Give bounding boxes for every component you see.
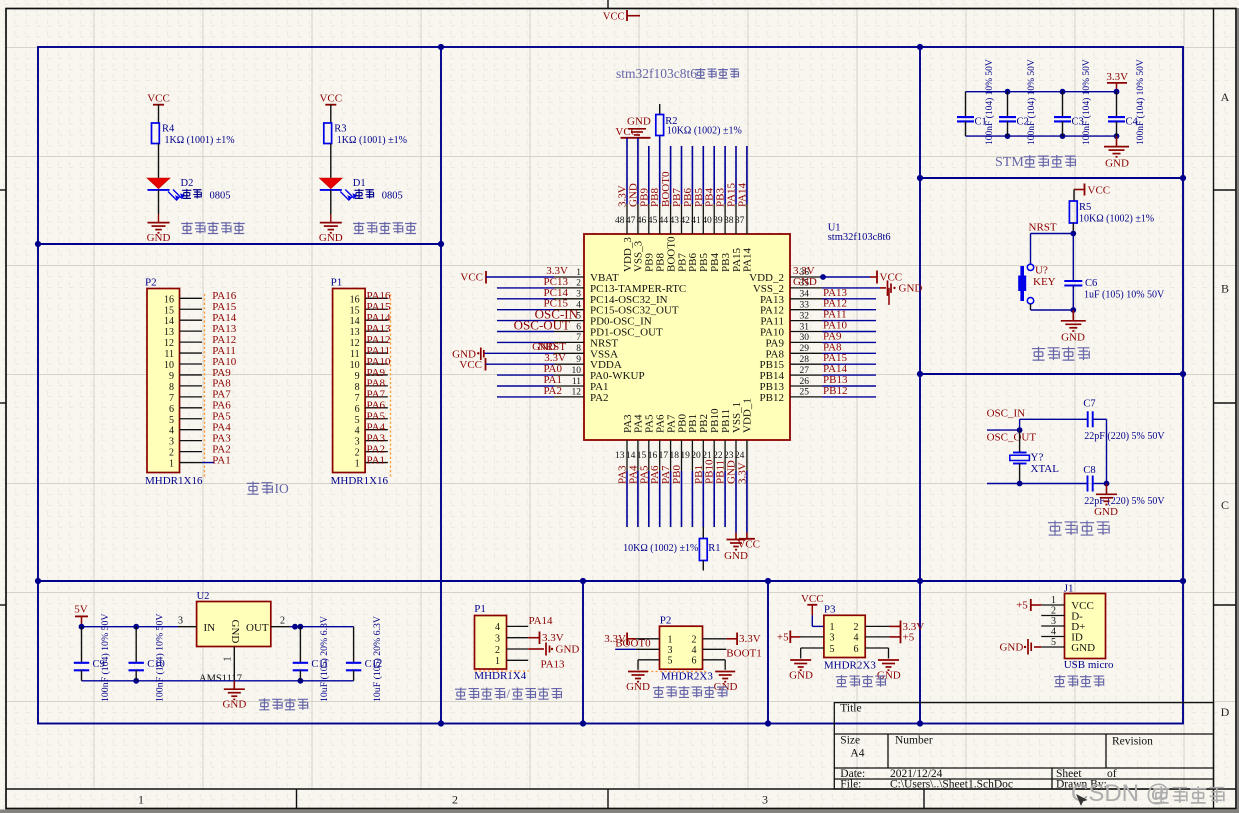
svg-text:GND: GND [789, 669, 813, 681]
svg-text:GND: GND [793, 276, 817, 288]
wire mcu pin32 [822, 320, 876, 322]
net label PC15 [544, 298, 569, 310]
svg-text:D1: D1 [353, 178, 366, 189]
capacitor C11 [293, 627, 329, 681]
svg-text:P1: P1 [474, 603, 486, 615]
wire decoupling top rail [966, 91, 1117, 93]
svg-text:14: 14 [164, 316, 174, 327]
svg-text:IN: IN [204, 622, 216, 634]
net label PC13 [544, 276, 569, 288]
wire crystal bottom rail [987, 481, 1109, 487]
ground on P2 pin5 [626, 672, 650, 693]
svg-text:3: 3 [830, 633, 835, 644]
caption programming debug interface [455, 686, 562, 701]
svg-text:PA2: PA2 [543, 385, 562, 397]
svg-text:1uF (105) 10% 50V: 1uF (105) 10% 50V [1084, 290, 1165, 301]
net label PA8 [823, 341, 842, 353]
svg-text:5: 5 [668, 656, 673, 667]
svg-text:23: 23 [724, 451, 734, 461]
mcu pin numbers [572, 216, 810, 461]
svg-text:18: 18 [670, 451, 680, 461]
svg-text:5: 5 [830, 644, 835, 655]
svg-text:3: 3 [169, 437, 174, 448]
svg-text:+5: +5 [1016, 600, 1028, 612]
net label PA14 [529, 615, 554, 627]
svg-text:24: 24 [735, 451, 745, 461]
svg-text:9: 9 [169, 371, 174, 382]
svg-text:44: 44 [659, 216, 669, 226]
svg-text:GND: GND [222, 699, 246, 711]
svg-text:100nF (104) 10% 50V: 100nF (104) 10% 50V [1135, 59, 1146, 145]
power port VCC reset [1074, 184, 1110, 197]
power port +5 on J1 pin1 [1016, 599, 1041, 612]
wire R5 to NRST node [1070, 223, 1076, 236]
value 10K of R5 [1079, 214, 1154, 225]
svg-text:7: 7 [576, 333, 581, 343]
svg-text:VCC: VCC [147, 93, 170, 105]
capacitor C1 [957, 92, 987, 136]
capacitor C12 [346, 627, 382, 681]
svg-text:10uF (105) 20% 6.3V: 10uF (105) 20% 6.3V [319, 616, 330, 702]
svg-text:R4: R4 [162, 124, 175, 135]
sheet title stm32f103c8t6 minimal system [616, 66, 739, 81]
power port VCC at mcu pin1 [460, 271, 486, 284]
svg-text:30: 30 [800, 333, 810, 343]
svg-text:OSC_OUT: OSC_OUT [987, 431, 1037, 443]
svg-text:10: 10 [572, 366, 582, 376]
wire mcu pin36 to VCC [820, 274, 877, 280]
caption STM decoupling circuit [995, 155, 1076, 170]
svg-text:15: 15 [164, 305, 174, 316]
svg-text:PA14: PA14 [742, 247, 754, 272]
resistor R4 [152, 123, 176, 144]
svg-text:9: 9 [576, 355, 581, 365]
net label PB13 [823, 374, 848, 386]
net label PA15 [823, 352, 848, 364]
svg-text:VCC: VCC [603, 12, 625, 23]
wires below mcu bottom pins [627, 471, 747, 533]
svg-text:GND: GND [532, 341, 556, 353]
junctions on decoupling rails [1005, 89, 1120, 139]
svg-text:Title: Title [840, 703, 861, 715]
svg-text:2: 2 [576, 279, 581, 289]
net label PA9 [823, 330, 842, 342]
power port VCC right of mcu [877, 271, 902, 284]
mcu pin names inside [590, 236, 784, 433]
svg-text:Size: Size [840, 735, 860, 747]
net label PA14 [823, 363, 848, 375]
power ports GND VCC above mcu [615, 116, 651, 138]
svg-text:C8: C8 [1083, 465, 1095, 476]
svg-text:10KΩ (1002) ±1%: 10KΩ (1002) ±1% [667, 126, 742, 137]
svg-text:28: 28 [800, 355, 810, 365]
svg-text:4: 4 [495, 622, 500, 633]
power port GND on P1 pin2 [528, 643, 579, 656]
connector P3 MHDR2X3 [824, 604, 876, 672]
svg-text:A: A [1221, 90, 1230, 104]
svg-text:11: 11 [350, 349, 360, 360]
power port 3.3V on P1 pin3 [528, 632, 564, 645]
pins of P1 [365, 298, 388, 462]
svg-text:38: 38 [724, 216, 734, 226]
svg-text:KEY: KEY [1033, 276, 1056, 288]
wire VCC to resistor [158, 105, 160, 123]
net labels on bottom wires [617, 459, 749, 484]
svg-text:1: 1 [495, 656, 500, 667]
svg-text:R1: R1 [708, 543, 720, 554]
svg-text:4: 4 [355, 426, 360, 437]
svg-text:3.3V: 3.3V [739, 633, 761, 645]
svg-text:VCC: VCC [737, 539, 760, 551]
connector J1 USB micro [1064, 583, 1114, 672]
ground of decoupling block [1104, 136, 1129, 169]
svg-text:42: 42 [680, 216, 690, 226]
svg-text:11: 11 [572, 377, 581, 387]
wire mcu pin7 NRST [497, 341, 554, 343]
svg-text:XTAL: XTAL [1031, 463, 1060, 475]
svg-text:+5: +5 [903, 632, 915, 644]
wire mcu pin25 [822, 396, 876, 398]
wire mcu pin27 [822, 374, 876, 376]
svg-text:AMS1117: AMS1117 [199, 674, 242, 685]
power port GND right of mcu [888, 280, 923, 305]
power port VCC at mcu pin9 [459, 358, 485, 371]
wire mcu pin30 [822, 341, 876, 343]
net label OSC_IN crystal [987, 408, 1026, 420]
svg-text:19: 19 [680, 451, 690, 461]
svg-text:P2: P2 [145, 277, 157, 289]
value 1K of R3 [337, 135, 407, 146]
svg-text:PA1: PA1 [212, 454, 231, 466]
svg-text:1KΩ (1001) ±1%: 1KΩ (1001) ±1% [165, 135, 235, 146]
net labels PA16-PA1 of P2 [212, 290, 237, 466]
power port VCC for D2 [147, 93, 170, 105]
power port +5 on P3 pin4 [889, 632, 914, 644]
wire crystal to bottom rail [1019, 464, 1021, 484]
connector P2 MHDR2X3 [660, 614, 714, 682]
net label PA13 [541, 659, 566, 671]
svg-text:3.3V: 3.3V [736, 462, 748, 484]
net label BOOT0 [615, 638, 651, 650]
power port +5 on P3 pin3 [777, 631, 800, 644]
ground of crystal block [1094, 484, 1118, 519]
capacitor C10 [129, 627, 165, 681]
svg-text:10: 10 [164, 360, 174, 371]
wire mcu pin6 OSC-OUT [497, 331, 554, 333]
resistor R1 [699, 527, 720, 571]
svg-text:3: 3 [668, 645, 673, 656]
net label OSC-IN [535, 307, 579, 322]
LED D2 [148, 178, 194, 201]
svg-text:GND: GND [1105, 158, 1129, 170]
svg-text:3.3V: 3.3V [1106, 71, 1128, 83]
caption external IO [247, 481, 289, 496]
svg-text:GND: GND [724, 550, 748, 562]
svg-text:9: 9 [355, 371, 360, 382]
svg-text:BOOT0: BOOT0 [615, 638, 651, 650]
push button U? KEY [1018, 264, 1055, 304]
svg-text:GND: GND [319, 232, 343, 244]
value label red LED 0805 [182, 189, 230, 201]
wire mcu pin11 [497, 385, 554, 387]
svg-text:34: 34 [800, 290, 810, 300]
svg-text:16: 16 [648, 451, 658, 461]
svg-text:13: 13 [164, 327, 174, 338]
power port 3.3V decoupling [1106, 71, 1128, 92]
wire mcu pin28 [822, 363, 876, 365]
svg-text:P3: P3 [824, 604, 836, 616]
svg-text:of: of [1107, 768, 1117, 780]
svg-text:11: 11 [164, 349, 174, 360]
net label PA0 [543, 363, 562, 375]
svg-text:3: 3 [576, 290, 581, 300]
svg-text:29: 29 [800, 344, 810, 354]
capacitor C3 [1054, 92, 1084, 136]
wires above mcu top pins [627, 136, 747, 205]
net label PA11 [823, 309, 847, 321]
svg-text:GND: GND [1071, 642, 1095, 654]
net label OSC_OUT crystal [987, 431, 1037, 443]
ground below mcu pin23 [724, 533, 748, 563]
ground below D1 [319, 223, 343, 244]
svg-text:3: 3 [355, 437, 360, 448]
resistor R3 [324, 123, 347, 144]
mcu U1 stm32f103c8t6 body [584, 234, 790, 440]
ground of reset block [1061, 310, 1086, 344]
net label PA2 [543, 385, 562, 397]
svg-text:Revision: Revision [1112, 736, 1153, 748]
capacitor C7 [1083, 399, 1095, 428]
value 100nF of C1 [984, 59, 995, 145]
value 100nF of C2 [1026, 59, 1037, 145]
net labels on top wires [617, 171, 749, 207]
svg-text:1: 1 [355, 459, 360, 470]
svg-text:MHDR2X3: MHDR2X3 [824, 659, 876, 671]
svg-text:10uF (105) 20% 6.3V: 10uF (105) 20% 6.3V [372, 616, 383, 702]
no-connect markers of P1 [390, 294, 392, 478]
power port GND at mcu pin8 [452, 348, 484, 361]
wire regulator bottom rail [82, 678, 354, 684]
value 10K of R1 [623, 543, 698, 554]
svg-text:R3: R3 [334, 124, 346, 135]
pins of P3 right [865, 626, 889, 658]
svg-text:PA1: PA1 [367, 454, 386, 466]
svg-text:6: 6 [169, 404, 174, 415]
net label PA13 [823, 287, 848, 299]
wire mcu pin35 to GND [822, 287, 886, 289]
svg-text:43: 43 [670, 216, 680, 226]
svg-text:1: 1 [576, 268, 581, 278]
connector P1 MHDR1X4 [474, 603, 526, 682]
svg-text:MHDR1X4: MHDR1X4 [474, 670, 526, 682]
value 100nF of C3 [1081, 59, 1092, 145]
svg-text:8: 8 [576, 344, 581, 354]
power port 3.3V on P2 pin2 [726, 633, 760, 646]
svg-text:5V: 5V [74, 604, 88, 616]
net label PA10 [823, 320, 848, 332]
svg-text:2: 2 [355, 448, 360, 459]
wire mcu pin33 [822, 309, 876, 311]
power port VCC on P3 [801, 593, 824, 615]
ground below D2 [147, 223, 171, 244]
svg-text:1KΩ (1001) ±1%: 1KΩ (1001) ±1% [337, 135, 407, 146]
resistor R5 [1069, 190, 1091, 224]
svg-text:10KΩ (1002) ±1%: 10KΩ (1002) ±1% [623, 543, 698, 554]
net label OSC-OUT [514, 318, 570, 333]
capacitor C2 [999, 92, 1029, 136]
svg-text:31: 31 [800, 322, 810, 332]
wire OSC_IN to C7 [1017, 419, 1088, 433]
resistor R2 [656, 104, 678, 136]
net label 3.3V pin1 [546, 265, 568, 277]
svg-text:14: 14 [350, 316, 360, 327]
wire BOOT0 on P2 pin3 [615, 648, 636, 650]
svg-text:STM: STM [995, 155, 1024, 170]
svg-text:17: 17 [659, 451, 669, 461]
wire mcu pin2 [497, 287, 554, 289]
svg-text:21: 21 [702, 451, 712, 461]
svg-text:1: 1 [223, 657, 234, 662]
wire mcu pin9 [486, 363, 555, 365]
wire mcu pin34 [822, 298, 876, 300]
svg-text:6: 6 [576, 322, 581, 332]
pins of P2 right [703, 639, 727, 670]
svg-text:3.3V: 3.3V [542, 632, 564, 644]
svg-text:1: 1 [1051, 595, 1056, 606]
net label NRST overlapped [532, 341, 566, 353]
svg-text:P1: P1 [331, 277, 343, 289]
power port VCC top [603, 10, 640, 23]
svg-text:MHDR1X16: MHDR1X16 [145, 475, 203, 487]
svg-text:8: 8 [169, 382, 174, 393]
svg-text:2: 2 [280, 616, 285, 627]
svg-text:PB12: PB12 [823, 385, 847, 397]
svg-text:VCC: VCC [460, 272, 483, 284]
svg-text:PA13: PA13 [541, 659, 566, 671]
zone letters and numbers [138, 90, 1230, 807]
wire mcu pin5 OSC-IN [497, 320, 554, 322]
svg-text:5: 5 [169, 415, 174, 426]
svg-text:File:: File: [840, 779, 861, 791]
svg-text:7: 7 [355, 393, 360, 404]
value 22pF of C8 [1084, 496, 1165, 507]
svg-text:U?: U? [1035, 265, 1048, 277]
svg-text:B: B [1221, 282, 1229, 296]
wire mcu pin4 [497, 309, 554, 311]
wire resistor to LED [158, 144, 160, 179]
value 100nF of C4 [1135, 59, 1146, 145]
capacitor C9 [74, 627, 105, 681]
pins of J1 [1041, 595, 1064, 648]
value of C9 [100, 614, 111, 702]
value 1uF of C6 [1084, 290, 1165, 301]
svg-text:3: 3 [1051, 616, 1056, 627]
svg-text:+5: +5 [777, 631, 789, 643]
svg-text:13: 13 [615, 451, 625, 461]
svg-text:20: 20 [691, 451, 701, 461]
net label PA12 [823, 298, 847, 310]
net label 3.3V pin9 [544, 352, 566, 364]
svg-text:R5: R5 [1079, 202, 1091, 213]
svg-text:PB12: PB12 [760, 392, 784, 404]
svg-text:0805: 0805 [382, 190, 403, 201]
wire mcu pin8 [485, 352, 555, 354]
svg-text:12: 12 [572, 388, 582, 398]
caption crystal circuit [1048, 521, 1109, 535]
power port VCC for D1 [319, 93, 342, 105]
net label PB12 [823, 385, 847, 397]
svg-text:GND: GND [229, 620, 241, 644]
svg-text:100nF (104) 10% 50V: 100nF (104) 10% 50V [1081, 59, 1092, 145]
divider junction dots [35, 44, 1186, 727]
svg-text:PA14: PA14 [529, 615, 554, 627]
svg-text:22: 22 [713, 451, 723, 461]
svg-text:13: 13 [350, 327, 360, 338]
value 22pF of C7 [1084, 431, 1165, 442]
svg-text:IO: IO [275, 481, 289, 496]
pins of P1 [507, 626, 529, 660]
wire C7 to corner down [1093, 419, 1107, 483]
svg-text:100nF (104) 10% 50V: 100nF (104) 10% 50V [100, 614, 111, 702]
power port 3.3V on P3 pin2 [889, 621, 924, 634]
capacitor C4 [1108, 92, 1139, 136]
svg-text:GND: GND [626, 681, 650, 693]
svg-text:2: 2 [452, 793, 458, 807]
wire decoupling bottom rail [966, 135, 1117, 137]
svg-text:5: 5 [355, 415, 360, 426]
svg-text:3: 3 [178, 616, 183, 627]
svg-text:100nF (104) 10% 50V: 100nF (104) 10% 50V [1026, 59, 1037, 145]
svg-text:100nF (104) 10% 50V: 100nF (104) 10% 50V [155, 614, 166, 702]
no-connect marker P1 [475, 670, 530, 672]
power port GND on J1 pin5 [999, 639, 1041, 655]
power port 5V [74, 604, 88, 627]
wire LED to ground [158, 190, 160, 223]
power port VCC below mcu pin24 [737, 533, 760, 551]
wire VCC to P3 pin1 [812, 615, 824, 626]
LED D1 [320, 178, 366, 201]
connector P1 MHDR1X16 [331, 277, 389, 488]
svg-text:Number: Number [895, 735, 933, 747]
svg-text:A4: A4 [850, 748, 864, 760]
value label red LED 0805 [354, 189, 402, 201]
svg-text:46: 46 [637, 216, 647, 226]
mcu pin stubs [554, 204, 822, 471]
svg-text:GND: GND [1061, 332, 1085, 344]
svg-text:47: 47 [626, 216, 636, 226]
svg-text:D: D [1221, 705, 1230, 719]
svg-text:33: 33 [800, 301, 810, 311]
net label NRST [1029, 222, 1057, 234]
svg-text:14: 14 [626, 451, 636, 461]
svg-text:2: 2 [692, 635, 697, 646]
value of C12 [372, 616, 383, 702]
ground on P3 pin6 [877, 660, 901, 681]
wire LED to ground [330, 190, 332, 223]
svg-text:32: 32 [800, 311, 810, 321]
value 10K of R2 [667, 126, 742, 137]
svg-text:VCC: VCC [1088, 184, 1111, 196]
svg-text:USB micro: USB micro [1064, 659, 1114, 671]
wire OSC_OUT [987, 429, 1020, 431]
svg-text:VCC: VCC [459, 359, 482, 371]
svg-text:12: 12 [164, 338, 174, 349]
svg-text:10: 10 [350, 360, 360, 371]
svg-text:C: C [1221, 498, 1229, 512]
svg-text:5: 5 [1051, 637, 1056, 648]
svg-text:OSC_IN: OSC_IN [987, 408, 1026, 420]
svg-text:/: / [507, 686, 511, 701]
